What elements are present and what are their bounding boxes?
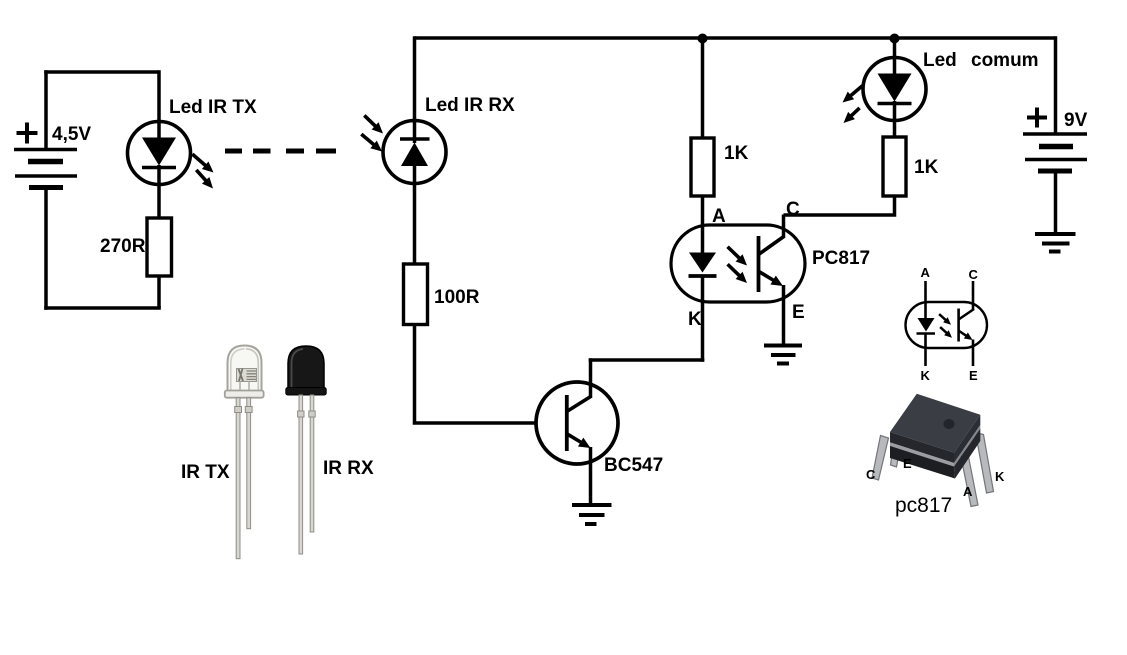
resistor R4 1K bbox=[883, 137, 906, 196]
svg-text:PC817: PC817 bbox=[812, 248, 870, 269]
svg-text:100R: 100R bbox=[434, 287, 480, 308]
top rail wire bbox=[415, 36, 1056, 40]
svg-text:BC547: BC547 bbox=[604, 455, 663, 476]
resistor R1 270R bbox=[147, 218, 172, 276]
wire left loop right side segments bbox=[157, 70, 161, 308]
transistor Q1 emitter with arrow bbox=[564, 429, 593, 452]
wire left loop bottom bbox=[44, 306, 161, 310]
svg-text:A: A bbox=[712, 206, 726, 227]
optocoupler U1 collector diagonal bbox=[759, 236, 785, 255]
LED D1 triangle bbox=[142, 138, 176, 166]
pinout collector diagonal bbox=[959, 309, 974, 320]
wire 100R down and right to base bbox=[413, 325, 566, 424]
photo pc817 package leg E bbox=[891, 451, 900, 467]
pinout LED triangle bbox=[918, 318, 935, 332]
photo IR RX black LED dome bbox=[288, 346, 324, 389]
svg-text:1K: 1K bbox=[914, 157, 939, 178]
photo pc817 package leg C bbox=[872, 436, 889, 481]
photo pc817 package cap right side bbox=[954, 415, 980, 463]
photo pc817 package dimple bbox=[944, 419, 955, 429]
svg-text:A: A bbox=[921, 265, 931, 280]
pinout emitter with arrow bbox=[956, 328, 974, 343]
transistor Q1 collector diagonal bbox=[567, 396, 592, 412]
photo pc817 package base left bbox=[890, 446, 955, 479]
pinout K lead bbox=[924, 334, 927, 367]
LED D3 Led comum circle bbox=[863, 58, 926, 121]
LED D3 emission arrow 2 bbox=[840, 104, 863, 126]
pinout phototransistor base bar bbox=[957, 309, 960, 342]
svg-text:K: K bbox=[921, 368, 931, 383]
wire left loop top bbox=[44, 70, 159, 74]
optocoupler U1 light arrow 1 bbox=[724, 243, 750, 269]
LED D3 triangle bbox=[878, 74, 912, 102]
LED D2 Led IR RX incoming arrow 1 bbox=[361, 112, 387, 137]
svg-text:K: K bbox=[688, 309, 702, 330]
photo pc817 package cap left side bbox=[890, 432, 954, 463]
pinout LED cathode bar bbox=[917, 332, 936, 335]
battery B2 9V plus sign bbox=[1027, 108, 1047, 128]
photo IR RX flange bbox=[286, 388, 326, 396]
wire rail to Led comum bbox=[893, 38, 897, 58]
photo IR RX legs bbox=[298, 395, 316, 554]
photo pc817 package cap top face bbox=[890, 394, 980, 453]
svg-text:IR RX: IR RX bbox=[323, 458, 374, 479]
LED D2 cathode bar on top bbox=[400, 137, 430, 141]
optocoupler U1 light arrow 2 bbox=[724, 261, 750, 287]
LED D1 vertical wire through bbox=[157, 121, 161, 185]
photo pc817 package leg A bbox=[960, 450, 979, 507]
resistor R2 100R bbox=[404, 264, 428, 325]
LED D1 emission arrow 1 bbox=[189, 150, 217, 176]
svg-text:Led IR TX: Led IR TX bbox=[169, 97, 257, 118]
optocoupler U1 phototransistor base bar bbox=[757, 236, 761, 292]
transistor Q1 base bar bbox=[565, 395, 569, 451]
wire rail to RX LED bbox=[413, 36, 417, 121]
battery B1 4,5V plates bbox=[14, 150, 77, 188]
wire left loop left side upper bbox=[44, 70, 48, 149]
wire R3 to U1 anode bbox=[701, 196, 705, 253]
junction node at 1K branch bbox=[698, 34, 708, 44]
wire C to R4 bbox=[784, 196, 895, 217]
photo IR TX flange bbox=[225, 391, 264, 398]
svg-text:C: C bbox=[866, 467, 876, 482]
pinout E lead bbox=[972, 340, 975, 367]
svg-text:comum: comum bbox=[971, 50, 1039, 71]
ground at U1 emitter bbox=[764, 346, 802, 364]
pinout pin A lead bbox=[924, 281, 927, 319]
photo IR TX legs bbox=[235, 398, 252, 559]
photo pc817 package leg K bbox=[976, 433, 994, 494]
battery B2 9V plates bbox=[1023, 134, 1087, 171]
transistor Q1 emitter vertical wire bbox=[589, 447, 593, 503]
LED D1 emission arrow 2 bbox=[193, 167, 217, 192]
svg-text:K: K bbox=[995, 469, 1005, 484]
LED D2 Led IR RX circle bbox=[383, 121, 446, 184]
pinout light arrow 1 bbox=[937, 312, 953, 328]
wire battery B2 to ground bbox=[1054, 171, 1058, 233]
wire RX LED to 100R bbox=[413, 184, 417, 265]
svg-text:4,5V: 4,5V bbox=[52, 124, 91, 145]
svg-text:E: E bbox=[969, 368, 978, 383]
LED D2 vertical wire through bbox=[413, 121, 417, 184]
svg-text:270R: 270R bbox=[100, 236, 146, 257]
LED D3 cathode bar bbox=[878, 102, 912, 106]
svg-text:C: C bbox=[786, 199, 800, 220]
svg-text:Led IR RX: Led IR RX bbox=[425, 95, 515, 116]
LED D3 vertical wire through bbox=[893, 58, 897, 137]
svg-text:A: A bbox=[963, 484, 973, 499]
battery B1 4,5V plus sign bbox=[17, 123, 38, 144]
pinout light arrow 2 bbox=[938, 325, 954, 341]
optocoupler U1 LED cathode bar bbox=[689, 274, 717, 278]
LED D2 triangle pointing up bbox=[401, 143, 428, 167]
LED D2 Led IR RX incoming arrow 2 bbox=[358, 130, 385, 155]
svg-text:E: E bbox=[792, 302, 805, 323]
svg-text:E: E bbox=[903, 456, 912, 471]
wire rail to R3 1K bbox=[701, 38, 705, 138]
photo pc817 package separation line bbox=[890, 442, 954, 466]
ground at BC547 emitter bbox=[572, 505, 612, 524]
svg-text:pc817: pc817 bbox=[895, 494, 952, 517]
optocoupler U1 emitter with arrow bbox=[755, 267, 785, 291]
ground at battery B2 bbox=[1035, 234, 1076, 252]
wire U1 cathode K down and left bbox=[701, 276, 705, 362]
LED D3 emission arrow 1 bbox=[839, 82, 865, 106]
LED D1 cathode bar bbox=[142, 166, 176, 170]
photo pc817 package base right bbox=[954, 429, 980, 479]
wire left loop left side lower bbox=[44, 187, 48, 310]
transistor Q1 collector vertical wire bbox=[589, 358, 593, 397]
svg-text:Led: Led bbox=[923, 50, 957, 71]
pinout pin C lead bbox=[972, 281, 975, 310]
LED D1 Led IR TX circle bbox=[128, 122, 191, 185]
wire rail corner to 9V battery bbox=[1054, 36, 1058, 133]
svg-text:IR TX: IR TX bbox=[181, 462, 230, 483]
junction node at Led comum branch bbox=[890, 34, 900, 44]
pinout diagram U1 body bbox=[906, 302, 988, 348]
svg-text:9V: 9V bbox=[1064, 110, 1088, 131]
photo pc817 package separation right bbox=[954, 425, 980, 467]
svg-text:1K: 1K bbox=[724, 143, 749, 164]
photo IR TX clear LED dome bbox=[228, 346, 262, 393]
svg-text:C: C bbox=[969, 267, 979, 282]
optocoupler U1 PC817 body bbox=[671, 225, 805, 302]
wire BC547 collector to K horizontal bbox=[589, 358, 705, 362]
optocoupler U1 emitter wire down bbox=[782, 285, 786, 345]
optical path dashed line bbox=[225, 149, 336, 154]
transistor Q1 BC547 circle bbox=[536, 382, 618, 464]
optocoupler U1 LED triangle bbox=[689, 253, 716, 273]
optocoupler U1 collector wire up bbox=[782, 215, 786, 238]
resistor R3 1K bbox=[691, 138, 714, 196]
